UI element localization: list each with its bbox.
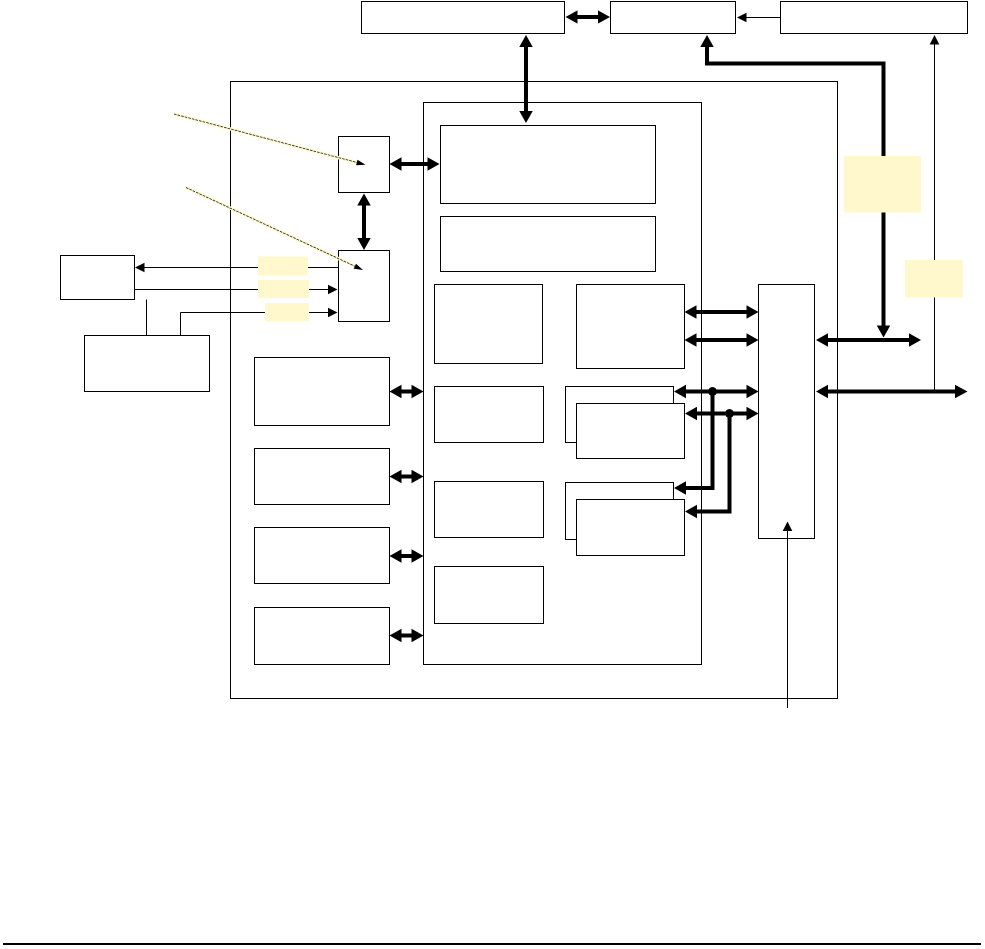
block T1 (top-left box) bbox=[362, 2, 565, 34]
signal line 3 (riser to S2) bbox=[181, 308, 338, 318]
footer rule bbox=[3, 943, 981, 945]
bus arrow TB-external lower bbox=[816, 385, 968, 399]
highlight Y2 bbox=[905, 260, 963, 298]
elbow bus junction2 to P2 front bbox=[685, 414, 730, 519]
bus arrow RC1-TB lower bbox=[685, 333, 759, 347]
highlight small A bbox=[258, 257, 308, 276]
block P2 back bbox=[566, 483, 674, 540]
highlight Y1 (covers elbow bus) bbox=[844, 156, 921, 213]
block P2 front bbox=[577, 500, 685, 556]
block M2 bbox=[435, 387, 544, 443]
highlight small B bbox=[258, 280, 309, 298]
block B bbox=[441, 217, 656, 272]
block A (CPU) bbox=[441, 126, 656, 204]
bus arrow S1 to A bbox=[390, 157, 440, 171]
inner core frame bbox=[424, 103, 702, 665]
block T2 (top-middle box) bbox=[611, 2, 736, 34]
block OL2 bbox=[255, 449, 390, 505]
callout line D1 bbox=[174, 114, 366, 165]
elbow bus junction1 to P2 back bbox=[674, 392, 713, 495]
bus arrow OL3-frame bbox=[390, 549, 424, 563]
highlight small C bbox=[265, 303, 309, 322]
block M1 (inner mid column 1) bbox=[435, 285, 543, 364]
outer module frame bbox=[231, 82, 838, 699]
wire L1 to L2 bbox=[146, 300, 148, 336]
block M3 bbox=[435, 482, 544, 538]
block P1 back bbox=[566, 387, 674, 443]
wire riser L2 to signal line 3 bbox=[180, 313, 182, 336]
vertical line from T3 down bbox=[930, 35, 940, 392]
block OL1 bbox=[255, 358, 390, 426]
block P1 front bbox=[577, 404, 685, 459]
bus arrow T1-T2 bbox=[566, 10, 611, 23]
block RC1 (inner right column) bbox=[577, 285, 685, 369]
block T3 (top-right box) bbox=[781, 2, 968, 34]
status arrow into TB bbox=[783, 522, 793, 709]
block L1 (outside left top) bbox=[61, 256, 135, 300]
small box S1 bbox=[339, 137, 390, 193]
block L2 (outside left bottom) bbox=[85, 336, 210, 392]
arrow T3 to T2 bbox=[737, 13, 780, 23]
bus arrow S1 to S2 bbox=[357, 194, 371, 251]
bus arrow OL4-frame bbox=[390, 629, 424, 643]
signal line 2 (L1 to S2) bbox=[135, 285, 338, 295]
bus arrow OL1-frame bbox=[390, 385, 424, 399]
block OL4 bbox=[255, 608, 390, 665]
callout line D2 bbox=[186, 188, 363, 271]
elbow bus T2 down right side bbox=[700, 35, 890, 338]
small box S2 bbox=[339, 251, 390, 322]
block OL3 bbox=[255, 528, 390, 584]
bus arrow P1back-TB with junction bbox=[674, 385, 759, 399]
bus arrow TB-external upper bbox=[816, 333, 921, 347]
bus arrow RC1-TB upper bbox=[685, 305, 759, 319]
tall box TB (bus controller) bbox=[759, 285, 815, 539]
vertical bus arrow T1 to block A bbox=[519, 35, 533, 123]
block M4 bbox=[435, 567, 544, 624]
signal line 1 (S2 to L1) bbox=[135, 263, 339, 273]
bus arrow P1front-TB with junction bbox=[685, 407, 759, 421]
bus arrow OL2-frame bbox=[390, 470, 424, 484]
